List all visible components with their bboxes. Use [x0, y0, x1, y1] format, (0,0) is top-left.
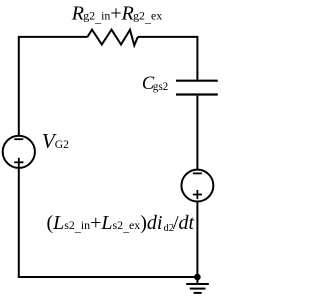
node junction dot — [194, 274, 201, 281]
capacitor Cgs2 top plate — [176, 80, 218, 82]
voltage source (L)di/dt circle — [181, 170, 213, 202]
svg-text:VG2: VG2 — [42, 129, 69, 153]
resistor Rg2_in+Rg2_ex zigzag — [88, 30, 138, 46]
capacitor Cgs2 bottom plate — [176, 93, 218, 95]
minus sign in VG2 — [14, 138, 23, 140]
wire: bottom-left rail (from VG2 down) + bottom rail — [19, 168, 198, 277]
svg-text:(Ls2_in+Ls2_ex)did2/dt: (Ls2_in+Ls2_ex)did2/dt — [47, 212, 195, 234]
wire: left rail up + top rail to resistor — [19, 37, 88, 136]
ground bar 2 — [190, 288, 206, 290]
wire: right source to bottom node — [196, 202, 198, 278]
ground bar 3 — [194, 292, 202, 294]
plus sign in VG2 — [14, 158, 23, 167]
ground bar 1 — [186, 283, 209, 285]
svg-text:Rg2_in+Rg2_ex: Rg2_in+Rg2_ex — [71, 3, 163, 25]
wire: top rail + right rail down to capacitor — [138, 37, 198, 80]
minus sign in right source — [193, 172, 202, 174]
voltage source VG2 circle — [3, 136, 35, 168]
wire: capacitor to right source — [196, 96, 198, 170]
ground stub — [196, 277, 198, 284]
plus sign in right source — [193, 190, 202, 199]
svg-text:Cgs2: Cgs2 — [142, 74, 168, 94]
